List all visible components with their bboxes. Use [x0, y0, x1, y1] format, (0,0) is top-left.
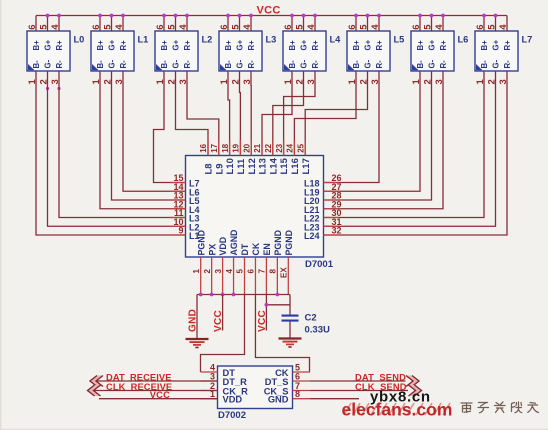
wire L0.2 to pin10 — [48, 71, 186, 226]
wire L6.3 to pin29 — [324, 71, 444, 209]
offpage connector DAT_RECEIVE — [90, 376, 103, 387]
wire L3.2 to pin19 — [239, 71, 242, 156]
connector L3 — [219, 16, 277, 85]
wire L1.1 to pin12 — [100, 71, 186, 209]
wire L5.2 to pin25 — [305, 71, 367, 156]
junction dots on bus — [199, 293, 203, 297]
D7002 left pin numbers — [210, 363, 215, 400]
wire L6.1 to pin27 — [324, 71, 421, 191]
wire bus to ground — [196, 295, 198, 339]
D7001 right pin numbers 26-32 — [332, 173, 342, 236]
wire GND D7002 pin8 — [310, 398, 359, 400]
wire bus corner to C2 branch — [266, 295, 290, 305]
wire L2.2 to pin16 — [176, 71, 209, 156]
D7002 right pin numbers — [295, 363, 300, 400]
offpage connector CLK_SEND — [409, 385, 422, 396]
D7002 right pin names — [264, 368, 289, 405]
junctions VCC rail L1 — [98, 14, 102, 18]
D7002 left pin names — [223, 368, 249, 405]
wire L5.3 to pin26 — [324, 71, 380, 183]
junctions VCC rail L7 — [482, 14, 486, 18]
wire EN stub VCC — [265, 295, 267, 331]
wire DAT_SEND — [310, 380, 406, 382]
wire L7.3 to pin32 — [324, 71, 508, 235]
wire CLK_RECEIVE — [89, 390, 218, 392]
D7002 pin stubs — [201, 372, 311, 399]
connector L2 — [155, 16, 213, 85]
wire VDD stub VCC — [222, 295, 224, 331]
wire L2.1 to pin15 — [154, 71, 186, 183]
wire L3.1 to pin18 — [228, 71, 230, 156]
junctions VCC rail L3 — [226, 14, 230, 18]
wire L4.3 to pin23 — [284, 71, 315, 156]
D7001 left pin names L7-L1 — [189, 179, 200, 242]
connector L0 — [27, 16, 85, 85]
wire L5.1 to pin24 — [294, 71, 356, 156]
junction dots under L0 — [46, 87, 49, 90]
ground symbol right — [279, 339, 302, 348]
junctions VCC rail L2 — [162, 14, 166, 18]
connector L1 — [91, 16, 149, 85]
wire L0.3 to pin11 — [59, 71, 186, 218]
wire L6.2 to pin28 — [324, 71, 432, 200]
wire L1.3 to pin14 — [123, 71, 186, 191]
wire L4.1 to pin21 — [262, 71, 292, 156]
wire DAT_RECEIVE — [91, 380, 218, 382]
D7001 top pin numbers 16-25 — [199, 143, 305, 152]
wire CLK_SEND — [310, 390, 408, 392]
junctions VCC rail L6 — [418, 14, 422, 18]
D7001 pin stubs — [170, 140, 339, 295]
IC D7002 body — [218, 366, 293, 421]
D7001 bottom pin names — [196, 230, 294, 256]
offpage connector DAT_SEND — [406, 376, 419, 387]
junctions VCC rail L0 — [46, 14, 50, 18]
ground symbol left — [186, 339, 209, 348]
wire L4.2 to pin22 — [273, 71, 304, 156]
net VCC top rail — [36, 15, 507, 17]
wire L7.2 to pin31 — [324, 71, 496, 226]
wire L2.3 to pin17 — [187, 71, 219, 156]
junctions VCC rail L5 — [354, 14, 358, 18]
D7001 right pin names L18-L24 — [304, 179, 320, 242]
junctions VCC rail L4 — [290, 14, 294, 18]
D7001 left pin numbers 15-9 — [173, 173, 183, 236]
connector L7 — [475, 16, 533, 85]
watermark elecfans.com — [342, 400, 453, 420]
op-amp U1 IC D7001 body — [186, 156, 334, 271]
wire L7.1 to pin30 — [324, 71, 485, 218]
connector L5 — [347, 16, 405, 85]
capacitor C2 — [282, 305, 330, 338]
watermark chinese characters — [461, 402, 539, 413]
junction dot C2 branch — [265, 303, 269, 307]
wire GND bus — [197, 294, 290, 296]
D7001 top pin names L8-L17 — [204, 157, 312, 174]
wire VCC to D7002 pin1 — [99, 398, 218, 400]
wire L1.2 to pin13 — [112, 71, 186, 200]
connector L4 — [283, 16, 341, 85]
wire L0.1 to pin9 — [36, 71, 186, 235]
offpage connector CLK_RECEIVE — [88, 385, 101, 396]
connector L6 — [411, 16, 469, 85]
wire L3.3 to pin20 — [250, 71, 252, 156]
D7001 bottom pin numbers 1-8 EX — [192, 267, 289, 278]
wire DT D7001 to D7002 — [201, 295, 245, 373]
wire CK D7001 to D7002 — [255, 295, 309, 373]
edge artifacts — [0, 0, 1, 430]
